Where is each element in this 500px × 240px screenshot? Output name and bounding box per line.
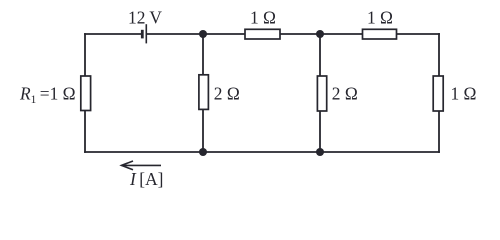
svg-text:12 V: 12 V (128, 8, 162, 28)
wire: left branch vertical (under R1) (84, 34, 86, 152)
svg-text:2 Ω: 2 Ω (332, 83, 358, 103)
current arrow I (122, 161, 162, 170)
wire: right branch vertical (under R6) (438, 34, 440, 152)
node B (top junction 2) (316, 30, 324, 38)
node C (bottom junction 1) (199, 148, 207, 156)
svg-text:1 Ω: 1 Ω (451, 83, 477, 103)
node A (top junction 1) (199, 30, 207, 38)
wire: middle branch 1 vertical (under R4) (202, 34, 204, 152)
svg-text:R1 =1 Ω: R1 =1 Ω (19, 83, 76, 106)
resistor R3 (top horizontal, 1 ohm) (363, 29, 397, 39)
resistor R1 (left vertical, 1 ohm) (81, 76, 91, 111)
node D (bottom junction 2) (316, 148, 324, 156)
wire: battery to node A (147, 33, 204, 35)
wire: node A to node B (under resistor R2) (203, 33, 320, 35)
battery B1 12 V (142, 24, 146, 43)
resistor R5 (middle vertical, 2 ohm) (317, 76, 326, 111)
svg-text:1 Ω: 1 Ω (367, 8, 393, 28)
wire: node B to top-right corner (under resistor R3) (320, 33, 439, 35)
resistor R2 (top horizontal, 1 ohm) (245, 29, 280, 39)
svg-text:2 Ω: 2 Ω (214, 83, 240, 103)
wire: middle branch 2 vertical (under R5) (319, 34, 321, 152)
svg-text:1 Ω: 1 Ω (250, 8, 276, 28)
svg-text:I [A]: I [A] (129, 169, 163, 189)
resistor R6 (right vertical, 1 ohm) (433, 76, 443, 111)
wire: bottom return wire (85, 151, 439, 153)
resistor R4 (middle vertical, 2 ohm) (199, 75, 209, 110)
wire: top-left segment from corner to battery (85, 33, 142, 35)
